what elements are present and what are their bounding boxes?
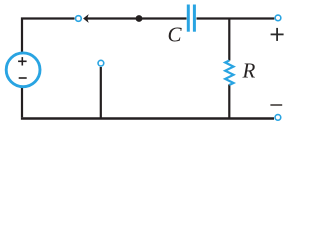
svg-text:C: C — [168, 23, 183, 47]
svg-text:R: R — [242, 59, 256, 83]
